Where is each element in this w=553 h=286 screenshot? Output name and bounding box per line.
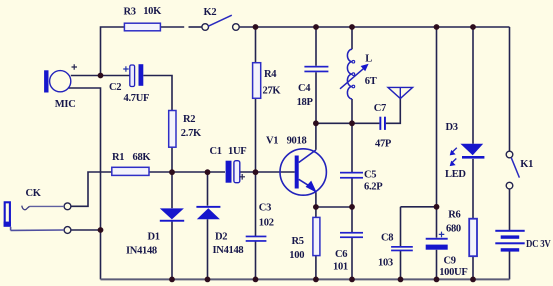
svg-text:R5: R5 — [292, 236, 304, 247]
svg-text:C7: C7 — [374, 103, 386, 114]
svg-text:MIC: MIC — [55, 99, 76, 110]
svg-text:C2: C2 — [109, 82, 121, 93]
svg-text:102: 102 — [259, 218, 274, 229]
svg-text:C1: C1 — [210, 146, 222, 157]
svg-text:IN4148: IN4148 — [126, 245, 157, 256]
svg-text:C3: C3 — [259, 202, 271, 213]
svg-text:6.2P: 6.2P — [364, 181, 383, 192]
svg-text:R1: R1 — [112, 152, 124, 163]
svg-text:27K: 27K — [263, 86, 282, 97]
svg-text:D2: D2 — [215, 231, 227, 242]
svg-text:IN4148: IN4148 — [213, 245, 244, 256]
svg-text:DC 3V: DC 3V — [526, 239, 551, 250]
svg-text:R4: R4 — [264, 69, 277, 80]
svg-text:4.7UF: 4.7UF — [124, 93, 150, 104]
svg-text:C5: C5 — [364, 170, 376, 181]
svg-text:100UF: 100UF — [439, 267, 467, 278]
svg-text:L: L — [365, 54, 372, 65]
svg-text:R2: R2 — [183, 114, 195, 125]
svg-text:CK: CK — [26, 188, 42, 199]
svg-text:100: 100 — [289, 250, 304, 261]
svg-text:C6: C6 — [335, 249, 347, 260]
svg-text:D1: D1 — [148, 231, 160, 242]
svg-text:101: 101 — [333, 261, 348, 272]
svg-text:C8: C8 — [381, 233, 393, 244]
svg-text:47P: 47P — [375, 138, 392, 149]
svg-text:103: 103 — [378, 258, 393, 269]
svg-text:K1: K1 — [520, 159, 533, 170]
svg-text:6T: 6T — [365, 76, 377, 87]
svg-text:D3: D3 — [446, 122, 458, 133]
svg-text:C4: C4 — [298, 83, 311, 94]
svg-text:V1: V1 — [266, 136, 278, 147]
svg-text:18P: 18P — [297, 97, 314, 108]
svg-text:68K: 68K — [133, 152, 152, 163]
svg-text:1UF: 1UF — [228, 146, 246, 157]
svg-text:680: 680 — [446, 224, 461, 235]
svg-text:9018: 9018 — [287, 136, 307, 147]
svg-text:R3: R3 — [124, 6, 136, 17]
svg-text:K2: K2 — [204, 7, 217, 18]
svg-text:LED: LED — [445, 169, 466, 180]
svg-text:2.7K: 2.7K — [181, 128, 202, 139]
svg-text:10K: 10K — [143, 6, 162, 17]
svg-text:C9: C9 — [444, 255, 456, 266]
svg-text:R6: R6 — [448, 209, 460, 220]
